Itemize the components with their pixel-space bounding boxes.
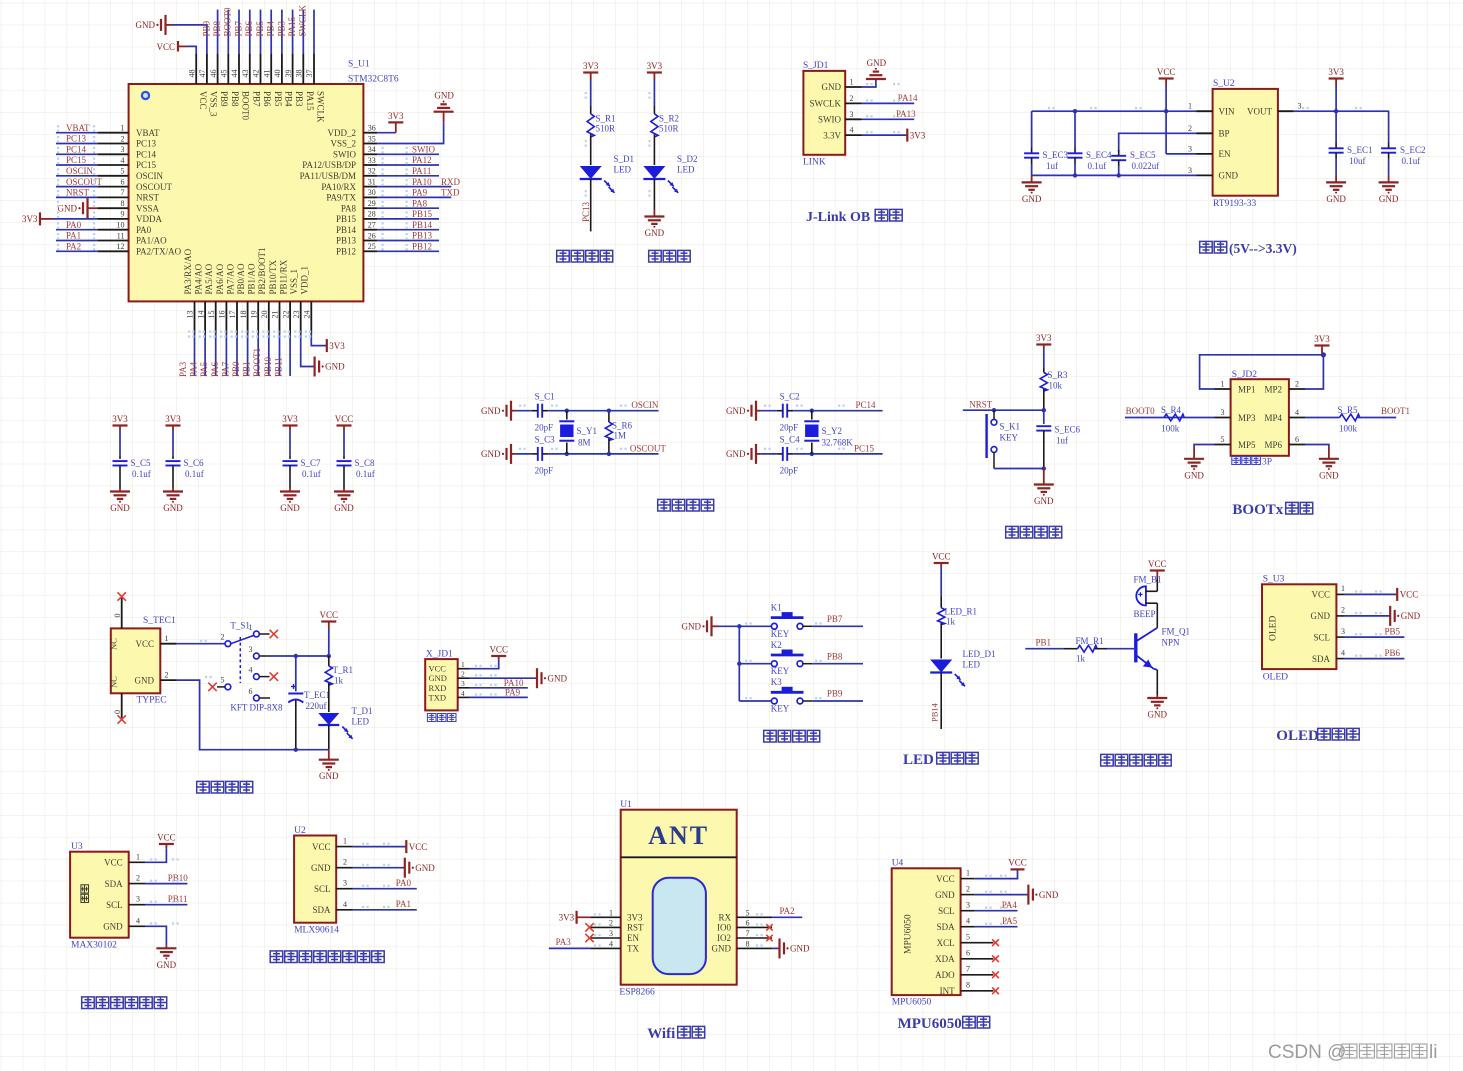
svg-text:BEEP: BEEP: [1134, 609, 1156, 619]
ground at MCU pin 23 VSS_1: [315, 357, 345, 377]
svg-text:4: 4: [966, 917, 970, 926]
value 10uf: [1349, 156, 1366, 166]
svg-text:PB5: PB5: [255, 20, 265, 36]
net label PA4: [189, 361, 199, 377]
svg-text:PA3/RX/AO: PA3/RX/AO: [183, 248, 193, 294]
net label PA5: [199, 361, 209, 377]
label S_EC2: [1400, 145, 1426, 155]
svg-text:3: 3: [136, 895, 140, 904]
svg-text:VSSA: VSSA: [136, 203, 160, 213]
svg-text:VOUT: VOUT: [1247, 106, 1272, 116]
wire PB12: [377, 250, 439, 252]
capacitor S_C8 0.1uf: [337, 430, 352, 488]
svg-text:PA0: PA0: [396, 878, 412, 888]
svg-text:MPU6050: MPU6050: [898, 1016, 962, 1032]
svg-text:3V3: 3V3: [329, 341, 345, 351]
svg-text:32: 32: [368, 167, 376, 176]
net label PA10 X_JD1: [504, 678, 524, 688]
resistor S_R6 1M: [605, 409, 612, 457]
svg-text:PA10: PA10: [412, 177, 432, 187]
svg-text:PB9: PB9: [201, 20, 211, 36]
ground crystal top: [481, 401, 516, 421]
wire rail to K3: [739, 700, 771, 702]
svg-text:GND: GND: [481, 406, 501, 416]
connector U2 MLX90614: [294, 836, 353, 923]
wire PB4: [281, 10, 283, 54]
net label BOOT0: [223, 7, 233, 36]
svg-text:PA9/TX: PA9/TX: [326, 193, 356, 203]
wire PB7: [812, 625, 863, 627]
svg-text:S_D1: S_D1: [614, 154, 635, 164]
svg-text:PB2/BOOT1: PB2/BOOT1: [257, 247, 267, 294]
net label TXD: [441, 188, 460, 198]
svg-text:PB9: PB9: [827, 689, 843, 699]
svg-text:PB15: PB15: [412, 209, 433, 219]
power VCC buzzer: [1148, 559, 1167, 591]
svg-text:100k: 100k: [1339, 424, 1358, 434]
svg-text:S_U3: S_U3: [1263, 575, 1285, 585]
svg-text:VSS_1: VSS_1: [289, 269, 299, 295]
svg-text:36: 36: [368, 124, 376, 133]
svg-text:PC15: PC15: [854, 444, 875, 454]
svg-text:25: 25: [368, 242, 376, 251]
svg-text:PA1: PA1: [66, 231, 81, 241]
svg-text:PB3: PB3: [294, 91, 304, 107]
svg-text:47: 47: [198, 70, 207, 78]
svg-text:PA11: PA11: [412, 166, 431, 176]
svg-text:100k: 100k: [1161, 424, 1180, 434]
svg-text:PB7: PB7: [251, 91, 261, 107]
crystal S_Y1 8M: [559, 411, 574, 454]
capacitor S_EC3 1uf: [1024, 111, 1039, 175]
net label OSCOUT: [630, 444, 667, 454]
label S_C7: [301, 458, 322, 468]
ground at MCU pin 8 VSSA: [58, 198, 99, 218]
svg-text:S_JD2: S_JD2: [1232, 370, 1258, 380]
label S_R5: [1338, 405, 1359, 415]
wire PA10 X_JD1: [470, 687, 528, 689]
svg-text:PB8: PB8: [212, 20, 222, 36]
svg-text:33: 33: [368, 156, 376, 165]
part value RT9193-33: [1213, 199, 1256, 209]
connector S_U3 OLED: [1262, 584, 1345, 669]
svg-text:OLED: OLED: [1263, 673, 1288, 683]
net label BOOT0: [1126, 406, 1155, 416]
net label PA9 X_JD1: [505, 687, 521, 697]
no-connect X switch pin4: [270, 672, 278, 680]
svg-text:4: 4: [136, 916, 140, 925]
svg-text:20pF: 20pF: [780, 423, 799, 433]
svg-text:PB7: PB7: [233, 20, 243, 36]
label FM_Q1: [1162, 627, 1191, 637]
wire OSCOUT: [56, 186, 98, 188]
svg-text:10uf: 10uf: [1349, 156, 1366, 166]
svg-text:PA2: PA2: [66, 242, 81, 252]
net label PA4 U4: [1002, 900, 1018, 910]
svg-text:FM_B1: FM_B1: [1134, 575, 1162, 585]
svg-text:J-Link OB: J-Link OB: [806, 210, 870, 225]
svg-text:VCC: VCC: [932, 551, 951, 561]
svg-text:6: 6: [746, 918, 750, 927]
wire PB6: [1345, 658, 1405, 660]
svg-text:S_D2: S_D2: [677, 154, 698, 164]
svg-text:VCC: VCC: [1148, 559, 1167, 569]
net label PA8: [412, 198, 428, 208]
power VCC OLED: [1397, 588, 1418, 601]
svg-text:NRST: NRST: [66, 188, 90, 198]
svg-text:CSDN @: CSDN @: [1268, 1042, 1346, 1063]
wire U3 GND: [145, 926, 166, 945]
ground crystal top: [726, 401, 761, 421]
wire reset bottom: [994, 466, 1046, 470]
wire PB13: [377, 240, 439, 242]
svg-text:20pF: 20pF: [780, 466, 799, 476]
power 3V3 at MCU pin 9 VDDA: [22, 212, 52, 225]
power VCC X_JD1: [489, 644, 508, 659]
module U1 ESP8266: [590, 810, 772, 985]
svg-text:23: 23: [292, 311, 301, 319]
title LED light circuit: [903, 752, 978, 768]
svg-text:2: 2: [165, 671, 169, 680]
value 220uf: [306, 701, 327, 711]
net label BOOT1: [1381, 406, 1410, 416]
wire buzzer to collector: [1156, 603, 1158, 628]
svg-text:PC13: PC13: [581, 201, 591, 222]
svg-text:TXD: TXD: [429, 692, 446, 702]
svg-text:S_EC5: S_EC5: [1130, 150, 1156, 160]
value KFT DIP-8X8: [230, 703, 283, 713]
wire OLED GND: [1345, 615, 1390, 617]
svg-text:GND: GND: [1219, 171, 1239, 181]
svg-text:30: 30: [368, 188, 376, 197]
svg-text:0.1uf: 0.1uf: [132, 469, 151, 479]
capacitor T_EC1 220uf: [288, 656, 303, 750]
svg-text:4: 4: [850, 126, 854, 135]
svg-text:PA2: PA2: [780, 906, 795, 916]
wire PB10: [145, 883, 187, 885]
svg-text:GND: GND: [325, 362, 345, 372]
title power circuit: [197, 781, 253, 793]
svg-text:NRST: NRST: [969, 400, 993, 410]
svg-text:GND: GND: [1148, 710, 1168, 720]
wire PB1 to FM_R1: [1025, 648, 1063, 650]
svg-text:GND: GND: [415, 863, 435, 873]
svg-text:S_Y1: S_Y1: [577, 426, 598, 436]
resistor S_R5 100k: [1340, 414, 1397, 421]
ground at MCU pin 47 VSS_3: [136, 15, 173, 35]
net label PB4: [266, 20, 276, 36]
svg-text:SCL: SCL: [106, 900, 123, 910]
svg-text:S_C2: S_C2: [780, 392, 800, 402]
part value jumper 3P: [1232, 457, 1272, 468]
wire PA13: [862, 118, 915, 120]
label S_EC6: [1055, 425, 1081, 435]
wire PB9: [217, 10, 219, 54]
svg-text:GND: GND: [645, 228, 665, 238]
svg-text:VCC: VCC: [936, 874, 955, 884]
svg-text:S_C5: S_C5: [131, 458, 152, 468]
svg-text:FM_Q1: FM_Q1: [1162, 627, 1191, 637]
net label PB14 rotated: [929, 702, 939, 722]
value 1k T_R1: [334, 676, 344, 686]
svg-text:KEY: KEY: [1000, 433, 1019, 443]
svg-text:PA8: PA8: [341, 203, 357, 213]
svg-text:22: 22: [281, 311, 290, 319]
wire GND rail: [1032, 173, 1197, 177]
net label NRST: [969, 400, 993, 410]
svg-text:45: 45: [220, 70, 229, 78]
wire NRST: [56, 196, 98, 198]
svg-text:PB6: PB6: [1385, 648, 1401, 658]
svg-text:PA15: PA15: [287, 16, 297, 36]
svg-text:VCC: VCC: [1400, 590, 1419, 600]
svg-text:PB10/TX: PB10/TX: [268, 259, 278, 294]
svg-text:3V3: 3V3: [583, 61, 599, 71]
title BOOTx setting: [1232, 502, 1312, 518]
svg-text:ADO: ADO: [935, 970, 955, 980]
svg-text:GND: GND: [135, 675, 155, 685]
svg-text:3: 3: [1221, 408, 1225, 417]
svg-text:MP4: MP4: [1264, 413, 1282, 423]
svg-text:9: 9: [121, 210, 125, 219]
svg-text:7: 7: [746, 929, 750, 938]
svg-text:OSCOUT: OSCOUT: [136, 182, 173, 192]
svg-text:38: 38: [295, 70, 304, 78]
module U4 MPU6050: [892, 868, 994, 996]
svg-text:PB5: PB5: [273, 91, 283, 107]
net label RXD: [441, 177, 461, 187]
label S_K1: [1000, 422, 1021, 432]
svg-text:1k: 1k: [334, 676, 344, 686]
svg-text:PA12: PA12: [412, 155, 432, 165]
svg-text:1k: 1k: [1076, 654, 1086, 664]
svg-text:PC13: PC13: [66, 134, 87, 144]
svg-text:1: 1: [165, 634, 169, 643]
ground X_JD1: [537, 668, 567, 688]
value 0.1uf S_EC4: [1088, 161, 1107, 171]
svg-text:PA3: PA3: [178, 361, 188, 377]
svg-text:GND: GND: [334, 503, 354, 513]
svg-text:2: 2: [1295, 380, 1299, 389]
title buzzer circuit: [1101, 754, 1172, 766]
svg-text:2: 2: [343, 858, 347, 867]
svg-text:6: 6: [1295, 435, 1299, 444]
svg-text:40: 40: [273, 70, 282, 78]
svg-text:16: 16: [218, 311, 227, 319]
svg-text:GND: GND: [1401, 611, 1421, 621]
svg-text:VCC: VCC: [198, 91, 208, 110]
svg-text:VCC: VCC: [312, 842, 331, 852]
no-connect ESP IO0: [766, 924, 772, 930]
svg-text:SDA: SDA: [312, 905, 331, 915]
value 0.1uf S_C6: [185, 469, 204, 479]
wire switch to VCC rail: [270, 654, 331, 658]
wire PA11: [377, 175, 439, 177]
net label NRST: [66, 188, 90, 198]
part value ESP8266: [619, 988, 655, 998]
svg-text:IO2: IO2: [717, 933, 731, 943]
net label PB12: [412, 242, 432, 252]
svg-text:U1: U1: [620, 800, 632, 810]
ground ESP: [780, 938, 810, 958]
svg-text:VCC: VCC: [1008, 858, 1027, 868]
no-connect X ESP EN: [585, 934, 593, 942]
value 20pF S_C3: [535, 466, 554, 476]
svg-text:0: 0: [113, 710, 122, 714]
wire PA0 U2: [353, 888, 417, 890]
svg-text:X_JD1: X_JD1: [426, 650, 453, 660]
wire U3 VCC: [145, 848, 166, 862]
label K1: [771, 603, 782, 613]
net label PB10: [168, 873, 189, 883]
net label PA7: [220, 361, 230, 377]
svg-text:S_EC3: S_EC3: [1043, 150, 1069, 160]
value 510R: [596, 124, 616, 134]
svg-text:VBAT: VBAT: [66, 123, 90, 133]
svg-text:46: 46: [209, 70, 218, 78]
svg-text:3V3: 3V3: [627, 913, 643, 923]
svg-text:3: 3: [1188, 166, 1192, 175]
svg-text:1: 1: [966, 868, 970, 877]
ground reset circuit: [1034, 469, 1054, 507]
label S_Y1: [577, 426, 598, 436]
svg-text:SDA: SDA: [1312, 654, 1331, 664]
svg-text:3V3: 3V3: [22, 214, 38, 224]
part label X_JD1: [426, 650, 453, 660]
title reset circuit: [1006, 526, 1062, 538]
part value STM32C8T6: [348, 75, 399, 85]
wire OSC top: [761, 410, 777, 412]
net label PA15: [287, 16, 297, 36]
svg-text:3P: 3P: [1262, 458, 1272, 468]
svg-text:IO0: IO0: [717, 923, 731, 933]
capacitor S_EC4 0.1uf: [1068, 111, 1083, 175]
wire TYPEC GND to bottom rail: [177, 680, 329, 752]
svg-text:K1: K1: [771, 603, 782, 613]
svg-text:2: 2: [850, 94, 854, 103]
svg-text:BOOT0: BOOT0: [1126, 406, 1155, 416]
buzzer FM_B1 BEEP: [1136, 586, 1157, 605]
svg-text:GND: GND: [280, 503, 300, 513]
svg-text:12: 12: [117, 242, 125, 251]
svg-text:S_R1: S_R1: [596, 114, 616, 124]
net label PB6: [1385, 648, 1401, 658]
wire highlight dots: [57, 125, 408, 250]
svg-text:VDDA: VDDA: [136, 214, 162, 224]
pushbutton K3 KEY: [771, 687, 812, 704]
capacitor S_C5 0.1uf: [113, 430, 128, 488]
ground U2: [405, 858, 435, 878]
wire BOOT loop to 3V3: [1200, 352, 1326, 389]
svg-text:S_JD1: S_JD1: [803, 61, 829, 71]
wire PB10: [279, 334, 281, 377]
title contactless temperature sensor: [270, 951, 384, 963]
wire top to net: [548, 409, 658, 413]
svg-text:5: 5: [121, 167, 125, 176]
svg-text:PB15: PB15: [336, 214, 357, 224]
wire U4 GND: [975, 894, 1029, 896]
net label PA11: [412, 166, 431, 176]
power 3V3 at JD1 pin 4: [907, 129, 925, 142]
wire PC14: [56, 153, 98, 155]
svg-text:NC: NC: [109, 638, 119, 650]
wire PA5 U4: [975, 926, 1018, 928]
svg-text:GND: GND: [1022, 194, 1042, 204]
svg-text:GND: GND: [548, 673, 568, 683]
title key circuit: [764, 730, 820, 742]
title power 5V to 3.3V: [1200, 241, 1297, 256]
svg-text:BOOT0: BOOT0: [241, 91, 251, 120]
net label PA1 U2: [396, 899, 411, 909]
svg-text:6: 6: [121, 177, 125, 186]
wire bottom to net: [793, 452, 882, 456]
label T_EC1: [304, 690, 330, 700]
svg-text:1: 1: [121, 124, 125, 133]
svg-text:BOOTx: BOOTx: [1232, 502, 1283, 518]
svg-text:MP6: MP6: [1264, 440, 1282, 450]
svg-text:GND: GND: [682, 622, 702, 632]
svg-text:8: 8: [966, 981, 970, 990]
svg-text:1: 1: [1188, 102, 1192, 111]
resistor S_R2 510R with LED S_D2: [643, 80, 678, 210]
wire pin5 to ground: [1194, 445, 1214, 448]
svg-text:PB6: PB6: [262, 91, 272, 107]
svg-text:28: 28: [368, 210, 376, 219]
svg-text:S_C8: S_C8: [355, 458, 376, 468]
svg-text:42: 42: [252, 70, 261, 78]
svg-text:27: 27: [368, 221, 376, 230]
net label PB10: [263, 356, 273, 377]
label LED_D1: [963, 649, 996, 659]
wire keys ground rail: [718, 624, 771, 701]
label T_D1: [352, 706, 373, 716]
svg-text:1: 1: [609, 908, 613, 917]
svg-text:510R: 510R: [659, 124, 679, 134]
svg-text:S_EC6: S_EC6: [1055, 425, 1081, 435]
svg-text:8: 8: [746, 939, 750, 948]
no-connect U4 INT: [992, 987, 999, 994]
wire PA4: [204, 334, 206, 377]
svg-text:1uf: 1uf: [1056, 436, 1068, 446]
svg-text:MPU6050: MPU6050: [904, 914, 914, 954]
svg-text:1: 1: [1341, 584, 1345, 593]
svg-text:BOOT1: BOOT1: [1381, 406, 1410, 416]
value LED S_D2: [677, 165, 695, 175]
svg-text:KEY: KEY: [771, 666, 790, 676]
part label U4: [892, 859, 904, 869]
net label PB5: [1385, 627, 1401, 637]
svg-text:8: 8: [121, 199, 125, 208]
wire 3V3 to VDDA: [52, 218, 98, 220]
svg-text:S_C7: S_C7: [301, 458, 322, 468]
svg-text:ANT: ANT: [648, 821, 709, 850]
net label PA10: [412, 177, 432, 187]
value 1M: [614, 431, 627, 441]
wire emitter to ground: [1156, 670, 1158, 695]
svg-text:VCC: VCC: [1157, 67, 1176, 77]
svg-text:3V3: 3V3: [1328, 67, 1344, 77]
svg-text:VDD_2: VDD_2: [328, 128, 357, 138]
value BEEP: [1134, 609, 1156, 619]
svg-text:LINK: LINK: [803, 158, 826, 168]
svg-text:Wifi: Wifi: [647, 1026, 675, 1042]
svg-text:LED_R1: LED_R1: [945, 607, 978, 617]
wire PA5: [215, 334, 217, 377]
wire VCC to LED_R1: [940, 568, 942, 597]
diode T_D1 LED: [318, 713, 352, 750]
wire PA1 U2: [353, 909, 417, 911]
net label PB11: [168, 894, 188, 904]
